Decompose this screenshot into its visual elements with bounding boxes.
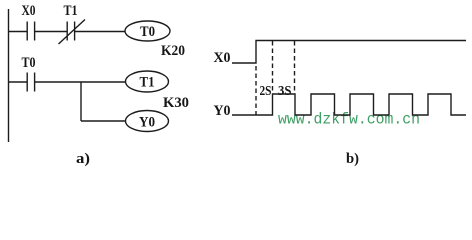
branch wire down — [80, 82, 82, 121]
wire T0 contact to coil T1 — [35, 81, 126, 83]
contact T1 (normally closed) — [59, 20, 86, 45]
branch wire to coil Y0 — [81, 120, 126, 122]
svg-text:X0: X0 — [214, 50, 231, 66]
dashed marker at X0 rising edge — [255, 66, 257, 115]
wire rung2 rail to T0 contact — [9, 81, 28, 83]
svg-text:T1: T1 — [64, 3, 78, 19]
dashed marker 2s — [272, 41, 274, 93]
wire X0 to T1 — [35, 31, 67, 33]
svg-text:X0: X0 — [22, 3, 36, 19]
wire T1 to coil T0 — [75, 31, 125, 33]
svg-text:T0: T0 — [140, 24, 155, 40]
svg-text:Y0: Y0 — [214, 103, 231, 119]
wire rung1 rail to X0 — [9, 31, 28, 33]
svg-text:K30: K30 — [163, 95, 189, 111]
svg-text:Y0: Y0 — [139, 115, 155, 131]
coil Y0 — [126, 111, 169, 132]
dashed marker 3s — [294, 41, 296, 93]
svg-text:T0: T0 — [22, 55, 36, 71]
svg-text:www.dzkfw.com.cn: www.dzkfw.com.cn — [278, 111, 420, 129]
left power rail — [8, 9, 10, 142]
contact X0 — [27, 22, 34, 41]
svg-text:a): a) — [76, 151, 90, 167]
coil T0 — [125, 21, 170, 41]
Y0 waveform — [232, 94, 466, 115]
svg-text:2S: 2S — [260, 84, 272, 99]
contact T0 — [27, 73, 34, 92]
svg-text:T1: T1 — [140, 75, 155, 91]
svg-text:b): b) — [346, 151, 359, 167]
svg-text:K20: K20 — [161, 43, 185, 59]
svg-text:3S: 3S — [278, 84, 292, 99]
X0 waveform — [232, 41, 466, 64]
coil T1 — [126, 71, 169, 92]
